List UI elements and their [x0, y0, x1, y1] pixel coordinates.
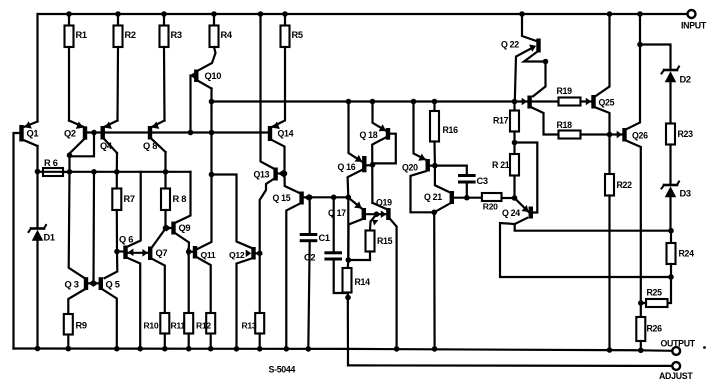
transistor Q17 — [328, 201, 366, 220]
transistor Q19 — [376, 198, 392, 221]
wire Q24 base to output node A — [515, 218, 671, 231]
junction mid rail / Q18 emitter — [370, 99, 376, 105]
junction output rail / Q15 base — [284, 346, 290, 352]
wire R15 bottom bracket — [348, 252, 370, 261]
wire Q23 collector riser — [533, 62, 546, 97]
wire R16 to Q20 base node — [433, 142, 436, 166]
junction output rail / Q19 emitter — [394, 346, 400, 352]
transistor Q15 — [273, 192, 310, 205]
resistor R11 — [171, 313, 194, 334]
wire R17 to R21 — [513, 132, 515, 155]
wire Q24 base to output node B — [500, 223, 671, 277]
svg-text:C3: C3 — [477, 176, 488, 186]
resistor R13 — [242, 313, 265, 334]
junction Q26 emitter line / R25 — [638, 300, 644, 306]
junction top rail / Q22 collector — [519, 11, 525, 17]
wire Q2 collector column to Q3 — [69, 172, 84, 278]
junction Q12 base / R13 / Q13 emitter — [257, 251, 263, 257]
transistor Q2 — [64, 121, 87, 154]
svg-text:Q20: Q20 — [402, 163, 418, 173]
resistor R2 — [114, 26, 136, 48]
wire R5 to Q14 collector — [272, 47, 285, 127]
junction mid rail / compensation column — [346, 99, 352, 105]
junction top rail / Q26/D2 branch — [637, 11, 643, 17]
junction Q11 base / R11 — [186, 249, 192, 255]
resistor R12 — [196, 313, 215, 334]
svg-text:R10: R10 — [144, 321, 159, 331]
svg-text:R25: R25 — [647, 288, 663, 298]
wire Q2-Q4 base link — [87, 131, 101, 133]
wire R1 top stub — [68, 14, 70, 26]
wire Q24 collector bracket — [515, 143, 538, 213]
resistor R19 — [557, 86, 581, 106]
resistor R6 — [43, 158, 63, 176]
wire Q25 collector to top rail — [596, 14, 610, 96]
transistor Q22 — [501, 39, 541, 53]
resistor R7 — [112, 189, 135, 211]
junction top rail / Q13 collector — [258, 11, 264, 17]
junction Q6 base / Q5 collector — [114, 249, 120, 255]
junction Q21 base node — [431, 210, 437, 216]
zener diode D1 — [29, 225, 55, 243]
wire Q1 base — [14, 133, 20, 349]
svg-text:Q9: Q9 — [179, 223, 191, 233]
svg-text:R19: R19 — [557, 86, 573, 96]
wire C3 bottom — [466, 184, 468, 199]
transistor Q6 — [117, 235, 133, 260]
svg-text:Q11: Q11 — [201, 250, 216, 260]
resistor R26 — [636, 317, 662, 341]
junction mid rail / R16 — [432, 99, 438, 105]
transistor Q14 — [268, 122, 294, 141]
svg-text:R14: R14 — [355, 277, 371, 287]
svg-text:Q4: Q4 — [100, 141, 113, 151]
wire R18 to node — [581, 133, 610, 135]
wire Q23 emitter to R19 — [532, 100, 559, 102]
capacitor C1 — [300, 233, 330, 243]
svg-text:OUTPUT: OUTPUT — [661, 339, 696, 349]
transistor Q16 — [338, 155, 367, 172]
resistor R22 — [605, 174, 632, 196]
svg-text:R12: R12 — [196, 321, 211, 331]
wire R12 to ground rail — [210, 334, 212, 349]
wire R14 to ADJUST line — [347, 293, 349, 366]
wire R2 top stub — [117, 14, 119, 26]
wire Q10 column to Q11 collector — [197, 175, 211, 250]
wire Q19 emitter to ground — [391, 220, 397, 349]
wire C1 bottom to ground — [308, 242, 309, 349]
wire node to Q21 collector — [435, 166, 450, 193]
junction comp line / column — [346, 195, 352, 201]
wire R3 to Q8 emitter — [163, 47, 166, 121]
svg-text:Q 18: Q 18 — [360, 130, 378, 140]
junction column / R15 return — [346, 257, 352, 263]
junction Q22 base / Q23 collector — [543, 59, 549, 65]
wire R5 top stub — [284, 14, 286, 26]
wire Q16 collector drop — [348, 170, 363, 198]
resistor R20 — [482, 193, 502, 212]
wire R16 top stub — [433, 102, 435, 112]
transistor Q24 — [502, 205, 533, 219]
svg-text:R3: R3 — [171, 30, 182, 40]
junction base line / Q10 collector line — [209, 130, 215, 136]
label S-5044 drawing number — [269, 365, 296, 375]
junction mid rail / Q20 emitter — [411, 99, 417, 105]
svg-text:C1: C1 — [319, 233, 330, 243]
wire D2 to R23 — [669, 83, 671, 124]
junction node line / Q3/Q5 bases feed — [91, 169, 97, 175]
resistor R8 — [161, 189, 186, 211]
wire top rail to Q1 — [36, 14, 38, 122]
svg-text:R15: R15 — [377, 236, 393, 246]
svg-text:S-5044: S-5044 — [269, 365, 296, 375]
svg-text:R 6: R 6 — [44, 158, 58, 168]
wire Q5 emitter to ground — [103, 290, 117, 349]
svg-text:R22: R22 — [617, 180, 633, 190]
transistor Q21 — [424, 191, 454, 204]
junction Q18/Q16/Q19 node — [370, 162, 376, 168]
wire node line to R7 — [116, 172, 118, 189]
junction comp line / C1 — [307, 195, 313, 201]
wire Q18 emitter feed — [373, 102, 387, 131]
wire R4 top stub — [213, 14, 215, 26]
junction output line A / D3 / R24 — [668, 228, 674, 234]
svg-text:Q 22: Q 22 — [501, 40, 519, 50]
wire R13 to ground rail — [259, 334, 261, 349]
transistor Q23 — [522, 96, 532, 109]
svg-text:C2: C2 — [304, 253, 315, 263]
wire Q3 emitter to R9 — [68, 290, 84, 315]
junction output rail / C1 — [306, 346, 312, 352]
svg-text:D3: D3 — [680, 189, 691, 199]
wire Q25 emitter down — [596, 108, 610, 135]
wire Q15 emitter node line — [304, 196, 349, 198]
wire Q9 collector riser — [176, 172, 191, 223]
wire Q14 emitter down — [272, 140, 284, 173]
wire R19 to Q25 — [581, 100, 592, 102]
svg-text:R1: R1 — [76, 30, 87, 40]
junction output rail / R11 — [186, 346, 192, 352]
svg-text:Q 17: Q 17 — [328, 208, 346, 218]
wire R11 to ground rail — [188, 334, 190, 349]
wire Q6-Q7 link — [128, 252, 149, 254]
wire Q1 collector to node — [36, 146, 38, 228]
junction top rail / R1 — [66, 11, 72, 17]
resistor R23 — [666, 124, 693, 145]
svg-text:Q14: Q14 — [278, 129, 294, 139]
svg-text:R23: R23 — [678, 129, 694, 139]
junction output rail / Q5 emitter — [114, 346, 120, 352]
wire node to R24 — [670, 231, 672, 243]
svg-text:R16: R16 — [443, 125, 459, 135]
junction Q3/Q5 bases — [91, 281, 97, 287]
wire Q13 emitter to Q12 base — [260, 179, 274, 253]
svg-text:Q26: Q26 — [632, 131, 648, 141]
wire C1 top — [309, 197, 311, 233]
resistor R18 — [557, 120, 581, 139]
wire R25 to Q26 emitter line — [641, 302, 646, 304]
junction base line / Q10 stub — [188, 130, 194, 136]
junction ground rail / D1 — [35, 346, 41, 352]
svg-text:Q10: Q10 — [205, 71, 222, 81]
wire R10 to ground rail — [164, 334, 166, 349]
svg-text:R 21: R 21 — [492, 160, 510, 170]
zener diode D3 — [662, 182, 691, 199]
wire R9 to ground rail — [67, 335, 69, 349]
transistor Q12 — [229, 247, 260, 260]
svg-text:Q12: Q12 — [229, 250, 245, 260]
junction output rail / R12 — [208, 346, 214, 352]
wire R15 top — [370, 214, 378, 230]
resistor R3 — [160, 26, 182, 48]
wire R21 to node — [513, 176, 515, 199]
svg-text:Q19: Q19 — [376, 198, 392, 208]
resistor R10 — [144, 313, 170, 334]
resistor R16 — [430, 111, 458, 142]
svg-text:R17: R17 — [493, 116, 509, 126]
svg-text:R26: R26 — [647, 324, 663, 334]
junction output rail / R26 — [638, 348, 644, 354]
transistor Q11 — [187, 246, 216, 260]
svg-text:R20: R20 — [483, 202, 498, 212]
svg-text:Q 6: Q 6 — [119, 235, 133, 245]
resistor R15 — [366, 231, 393, 252]
junction Q20 base / R16 / C3 — [432, 163, 438, 169]
resistor R14 — [343, 268, 371, 293]
junction top rail / R5 — [282, 11, 288, 17]
wire C3 feed — [435, 166, 467, 174]
resistor R25 — [646, 288, 668, 308]
wire Q18 base loop — [373, 134, 396, 164]
svg-text:R7: R7 — [124, 194, 135, 204]
junction C3 / Q21 emitter line — [464, 195, 470, 201]
junction output rail / R9 — [66, 346, 72, 352]
wire Q12 emitter to ground — [237, 259, 252, 349]
wire Q26 collector riser — [627, 14, 640, 129]
junction Q2 collector / base tie — [67, 153, 73, 159]
transistor Q8 — [143, 121, 166, 153]
svg-text:R2: R2 — [125, 30, 136, 40]
wire R26 to output rail — [640, 341, 642, 350]
transistor Q20 — [402, 154, 430, 173]
junction mid rail start / Q10 — [209, 99, 215, 105]
stray printed dot — [703, 346, 706, 349]
wire Q9 emitter to Q11 base — [176, 234, 189, 252]
junction node line / Q8/R8 — [163, 169, 169, 175]
wire Q21 base diag — [434, 204, 450, 213]
wire C2 top — [333, 197, 335, 251]
wire R2 to Q4 emitter — [116, 47, 119, 121]
junction Q10 column / Q11-Q12 branch — [209, 172, 215, 178]
wire Q5 collector diag — [103, 272, 118, 278]
transistor Q7 — [142, 247, 167, 261]
transistor Q9 — [166, 222, 191, 235]
wire node B to R25 — [668, 277, 672, 303]
svg-text:R24: R24 — [679, 249, 695, 259]
resistor R24 — [667, 243, 695, 264]
resistor R1 — [65, 26, 87, 48]
transistor Q13 — [254, 168, 285, 181]
junction output rail / Q6 emitter — [137, 346, 143, 352]
resistor R17 — [493, 111, 519, 132]
svg-text:R11: R11 — [171, 321, 186, 331]
transistor Q3 — [65, 277, 94, 290]
wire branch to Q12 — [212, 175, 252, 249]
wire Q24 emitter feed — [515, 198, 529, 212]
transistor Q26 — [617, 128, 648, 142]
junction Q9 base / R8 / Q7 collector — [163, 225, 169, 231]
terminal ADJUST pin — [659, 362, 693, 381]
wire Q17-Q19 link — [366, 213, 386, 215]
wire Q2 collector down — [68, 154, 70, 172]
resistor R21 — [492, 154, 519, 176]
svg-text:Q2: Q2 — [64, 129, 76, 139]
junction node line / R7/Q4 — [114, 169, 120, 175]
wire Q8 collector down — [164, 152, 166, 172]
svg-text:Q 5: Q 5 — [106, 280, 120, 290]
terminal INPUT pin — [681, 10, 707, 31]
junction Q26 collector / D2 branch — [637, 42, 643, 48]
wire Q6 collector riser — [128, 172, 141, 247]
wire node line to R8 — [164, 172, 166, 189]
resistor R5 — [281, 26, 303, 48]
svg-text:Q 8: Q 8 — [143, 141, 157, 151]
wire D3 to node — [669, 198, 671, 231]
junction Q13 base / Q14 emitter — [282, 171, 288, 177]
svg-text:ADJUST: ADJUST — [659, 371, 693, 381]
svg-text:Q 21: Q 21 — [424, 192, 442, 202]
svg-text:Q 24: Q 24 — [502, 208, 520, 218]
wire Q21 emitter to R20 — [454, 197, 480, 199]
svg-text:D2: D2 — [680, 75, 691, 85]
junction column / C2 return — [345, 295, 351, 301]
wire R1 to Q2 emitter — [68, 47, 70, 121]
svg-text:Q 15: Q 15 — [273, 193, 291, 203]
wire Q16 base stub — [367, 164, 373, 166]
wire Q14-emitter node to Q15 collector — [285, 174, 300, 194]
svg-text:R5: R5 — [292, 30, 303, 40]
wire Q22 emitter — [515, 49, 531, 102]
junction Q2/Q4 bases — [91, 130, 97, 136]
wire mirror node line — [38, 171, 191, 173]
wire mid rail to Q16 emitter — [349, 102, 363, 162]
junction output rail / R10 — [162, 346, 168, 352]
junction output rail / Q21 base — [432, 346, 438, 352]
wire Q11 emitter to R12 — [197, 258, 211, 314]
wire R8 to Q9 base — [164, 210, 166, 228]
junction comp line / C2 — [331, 195, 337, 201]
wire R22 top — [608, 135, 610, 175]
wire Q17 collector drop — [348, 219, 361, 260]
junction R6 left / D1 / Q1 — [35, 169, 41, 175]
transistor Q25 — [586, 95, 615, 109]
capacitor C3 — [458, 174, 488, 186]
resistor R4 — [210, 26, 233, 48]
svg-text:INPUT: INPUT — [681, 21, 707, 31]
wire R11 column — [188, 252, 190, 313]
wire Q20 collector drop — [411, 171, 435, 212]
wire Q18 collector diag — [372, 137, 386, 203]
terminal OUTPUT pin — [661, 339, 696, 355]
wire Q7 collector to Q9 base — [152, 229, 166, 248]
transistor Q18 — [360, 124, 391, 140]
wire R6 right to node line — [63, 171, 70, 173]
wire Q3-Q5 base link — [88, 282, 98, 284]
junction Q17/Q19 link / R15 — [374, 211, 380, 217]
wire Q17 emitter diag — [348, 197, 362, 208]
junction Q25 emitter / R18 / R22 / Q26 base — [607, 132, 613, 138]
svg-text:R4: R4 — [221, 30, 233, 40]
wire D1 to ground rail — [36, 241, 38, 349]
junction R17/R21/Q24 collector — [512, 140, 518, 146]
svg-text:Q1: Q1 — [27, 129, 39, 139]
wire common base line — [105, 131, 268, 133]
junction top rail / R3 — [161, 11, 167, 17]
wire ADJUST line — [348, 364, 672, 367]
wire mid rail — [212, 100, 528, 102]
resistor R9 — [64, 314, 87, 335]
transistor Q1 — [19, 121, 38, 146]
junction top rail / R2 — [115, 11, 121, 17]
wire Q26 base stub — [610, 133, 623, 135]
wire D2 branch — [640, 45, 671, 70]
wire R13 column — [259, 253, 261, 313]
svg-text:Q7: Q7 — [156, 248, 168, 258]
wire Q13 collector to top rail — [261, 14, 274, 169]
wire Q4 collector down — [116, 153, 118, 172]
svg-text:R 8: R 8 — [173, 194, 187, 204]
junction mid rail / R17/Q23 base — [512, 99, 518, 105]
wire Q26 emitter column — [627, 141, 641, 317]
wire bases feed from node line — [92, 172, 95, 283]
wire Q20 base stub — [430, 165, 435, 167]
wire Q22 collector — [522, 14, 536, 41]
wire R4 to Q10 — [199, 47, 216, 70]
junction output rail / R22 — [607, 347, 613, 353]
svg-text:R13: R13 — [242, 321, 257, 331]
junction output rail / Q12 emitter — [234, 346, 240, 352]
capacitor C2 — [304, 251, 342, 262]
wire ground-output rail — [14, 349, 673, 351]
svg-text:R9: R9 — [76, 321, 87, 331]
wire column Q17 segment — [347, 197, 349, 260]
wire Q2/Q4 base tie-down — [70, 133, 95, 157]
svg-text:Q25: Q25 — [599, 98, 615, 108]
junction node line / Q2 collector — [67, 169, 73, 175]
junction top rail / Q25 collector — [607, 11, 613, 17]
wire column to R14 — [347, 260, 350, 268]
wire Q10 collector column — [210, 89, 212, 175]
wire Q20 emitter feed — [414, 102, 426, 160]
wire R20 to node — [503, 197, 515, 199]
wire Q6 emitter to ground — [128, 258, 141, 349]
wire R17 top stub — [513, 102, 515, 111]
svg-text:Q 16: Q 16 — [338, 162, 356, 172]
junction output line B / R24 / R25 — [668, 274, 674, 280]
svg-text:Q13: Q13 — [254, 170, 270, 180]
junction top rail / R4 — [211, 11, 217, 17]
svg-text:R18: R18 — [557, 120, 573, 130]
transistor Q5 — [93, 277, 119, 290]
svg-text:Q 3: Q 3 — [65, 280, 79, 290]
wire Q5 collector riser — [105, 252, 118, 279]
wire R7 to Q6 base — [116, 210, 118, 252]
wire top supply rail — [38, 13, 688, 15]
wire R23 to D3 — [669, 145, 671, 185]
zener diode D2 — [662, 67, 691, 85]
wire Q15 base to ground — [286, 204, 299, 349]
wire C2 bottom bracket — [334, 261, 348, 294]
